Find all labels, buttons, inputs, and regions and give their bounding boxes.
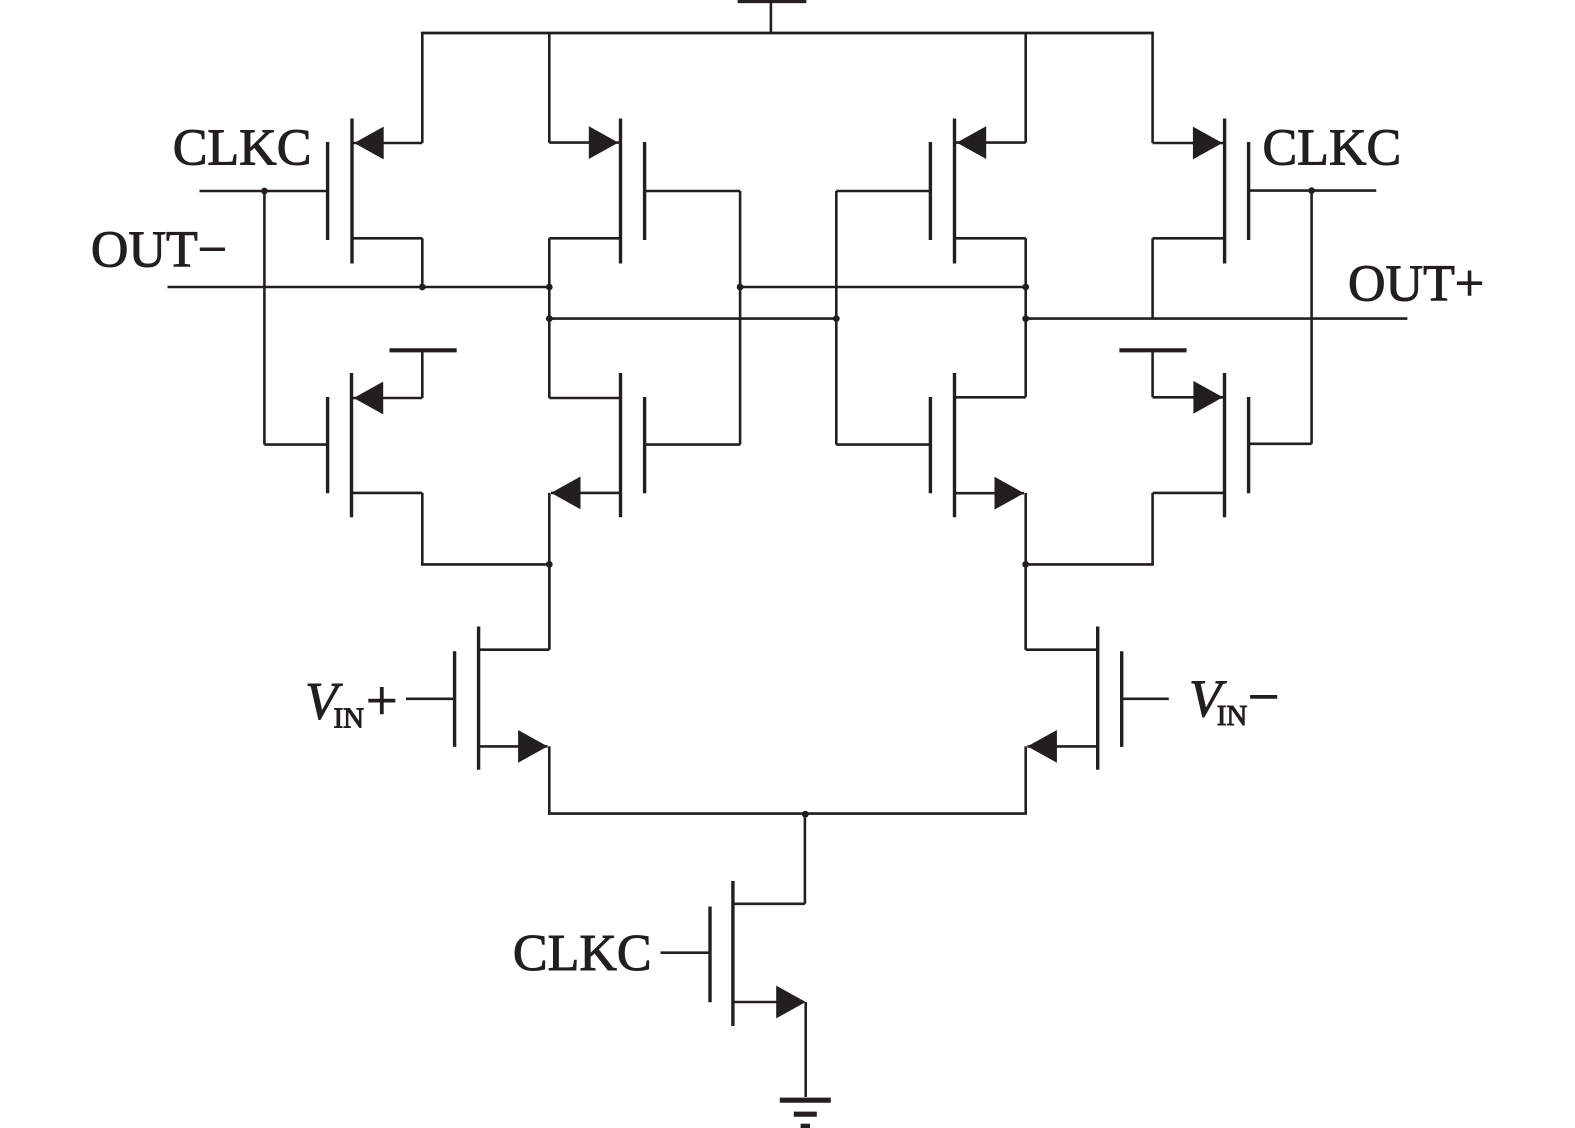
wire M11 source to ground <box>804 1002 807 1097</box>
wire M7 source vertical <box>548 493 551 650</box>
wire M2 gate (CLKC) <box>1249 189 1377 192</box>
wire M10 gate (VIN-) <box>1122 697 1169 700</box>
wire CLKC left vertical <box>263 191 266 445</box>
transistor M11 (tail CLKC NMOS) <box>710 881 806 1026</box>
svg-text:CLKC: CLKC <box>173 120 312 177</box>
wire M2 drain to rail <box>1151 33 1154 143</box>
supply tap bar right <box>1119 348 1186 352</box>
node left internal (M5/M7/M9) <box>546 561 553 568</box>
ground <box>780 1100 831 1126</box>
wire M8 gate to cross vertical <box>836 443 930 446</box>
svg-text:IN: IN <box>1217 700 1248 732</box>
node CLKC left junction <box>261 188 268 195</box>
wire M3 drain to rail <box>548 33 551 143</box>
wire M10 source down <box>805 746 1025 813</box>
node common source <box>802 811 809 818</box>
wire CLKC right vertical <box>1310 191 1313 444</box>
svg-text:OUT−: OUT− <box>91 221 227 278</box>
wire M1 drain to rail <box>421 33 424 143</box>
transistor M1 (left CLKC PMOS) <box>328 119 423 264</box>
transistor M6 (right outer NMOS) <box>1153 373 1249 517</box>
wire M6 gate <box>1249 442 1312 445</box>
wire M1 source to OUT- <box>421 238 424 287</box>
wire M1 gate (CLKC) <box>200 190 328 193</box>
wire M8 source vertical <box>1024 493 1027 650</box>
wire left gates cross vertical <box>739 191 742 445</box>
svg-text:+: + <box>366 671 398 733</box>
transistor M7 (mid-left NMOS) <box>549 373 644 517</box>
transistor M9 (VIN+ NMOS) <box>455 627 550 770</box>
node cross at left gates vertical <box>737 284 744 291</box>
transistor M8 (mid-right NMOS) <box>930 373 1025 517</box>
wire VDD rail <box>421 32 1154 35</box>
node OUT- at right output <box>1022 284 1029 291</box>
svg-text:CLKC: CLKC <box>513 925 652 982</box>
wire left inverter output vertical <box>548 238 551 398</box>
wire M9 gate (VIN+) <box>406 697 455 700</box>
node right internal (M6/M8/M10) <box>1022 561 1029 568</box>
wire M4 gate to cross vertical <box>836 190 930 193</box>
wire M9 drain vertical <box>548 564 551 649</box>
wire M11 gate (CLKC) <box>661 951 711 954</box>
supply tap bar left <box>390 348 457 352</box>
wire M5 drain to tap <box>421 350 424 398</box>
wire right gates cross vertical <box>835 191 838 445</box>
wire M10 drain vertical <box>1024 564 1027 649</box>
wire OUT- line <box>168 286 550 289</box>
wire OUT+ line <box>1026 317 1408 320</box>
wire M6 drain to tap <box>1151 350 1154 397</box>
transistor M5 (left outer NMOS) <box>328 373 423 517</box>
node cross at right gates vertical <box>833 315 840 322</box>
transistor M10 (VIN- NMOS) <box>1026 627 1122 770</box>
node left output to cross line <box>546 315 553 322</box>
wire M7 gate to cross vertical <box>645 443 741 446</box>
power symbol VDD bar <box>738 0 807 3</box>
transistor M4 (mid-right PMOS) <box>930 119 1025 264</box>
wire M2 source to OUT+ <box>1151 238 1154 318</box>
node CLKC right junction <box>1308 187 1315 194</box>
wire M3 gate to cross vertical <box>645 190 741 193</box>
wire cross line right (to left gates) <box>740 286 1026 289</box>
svg-text:−: − <box>1248 667 1280 729</box>
transistor M2 (right CLKC PMOS) <box>1153 119 1249 264</box>
wire M11 drain vertical <box>804 814 807 904</box>
wire cross line left (to right gates) <box>549 317 836 320</box>
wire VDD stem <box>770 3 773 34</box>
wire M4 drain to rail <box>1024 33 1027 143</box>
wire M5 gate <box>264 443 327 446</box>
wire M5 source down <box>422 493 549 565</box>
svg-text:CLKC: CLKC <box>1263 120 1402 177</box>
wire right inverter output vertical <box>1024 238 1027 397</box>
wire M6 source down <box>1026 493 1153 565</box>
svg-text:IN: IN <box>334 703 365 735</box>
node OUT- at left output <box>546 284 553 291</box>
svg-text:OUT+: OUT+ <box>1348 255 1484 312</box>
wire M9 source down <box>549 746 805 813</box>
node M1 source on OUT- <box>419 284 426 291</box>
transistor M3 (mid-left PMOS) <box>549 119 644 264</box>
node right output to OUT+ <box>1022 315 1029 322</box>
